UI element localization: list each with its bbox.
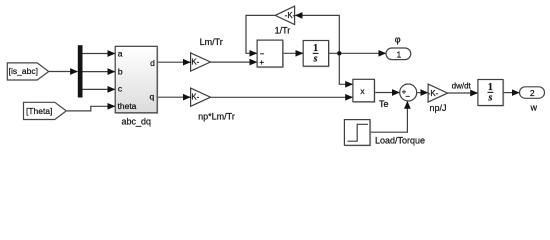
svg-text:[is_abc]: [is_abc] <box>9 66 38 76</box>
svg-text:np/J: np/J <box>429 103 446 113</box>
svg-text:q: q <box>149 92 154 102</box>
svg-text:Lm/Tr: Lm/Tr <box>200 37 223 47</box>
svg-text:s: s <box>487 93 492 104</box>
svg-text:s: s <box>313 54 318 65</box>
svg-text:np*Lm/Tr: np*Lm/Tr <box>198 111 235 121</box>
svg-text:[Theta]: [Theta] <box>26 106 52 116</box>
svg-text:d: d <box>150 58 155 68</box>
svg-text:Load/Torque: Load/Torque <box>375 135 425 145</box>
svg-text:b: b <box>118 66 123 76</box>
svg-text:1: 1 <box>488 82 493 93</box>
svg-text:−: − <box>405 92 410 101</box>
svg-text:φ: φ <box>395 35 401 45</box>
svg-text:-K-: -K- <box>428 89 439 98</box>
svg-text:1: 1 <box>313 43 318 54</box>
svg-text:2: 2 <box>530 88 535 98</box>
svg-text:1: 1 <box>397 49 402 59</box>
svg-text:1/Tr: 1/Tr <box>275 26 291 36</box>
svg-text:dw/dt: dw/dt <box>452 82 472 91</box>
svg-text:-K-: -K- <box>189 93 200 102</box>
svg-text:-K-: -K- <box>189 58 200 67</box>
svg-text:-K-: -K- <box>285 11 296 20</box>
svg-text:Te: Te <box>379 99 389 109</box>
svg-text:w: w <box>530 102 538 112</box>
svg-text:a: a <box>118 48 123 58</box>
svg-text:abc_dq: abc_dq <box>122 116 152 126</box>
svg-text:theta: theta <box>118 101 137 111</box>
svg-text:c: c <box>118 84 123 94</box>
svg-text:+: + <box>259 58 264 67</box>
